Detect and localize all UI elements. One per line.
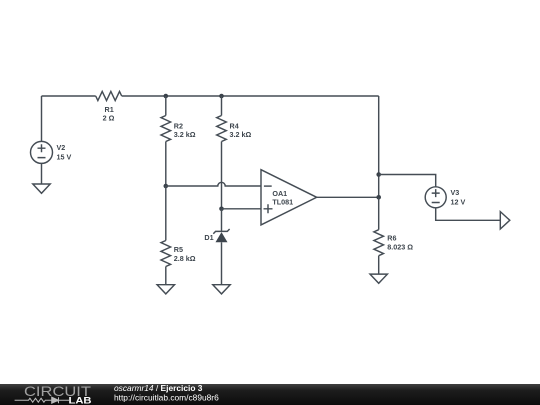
wire plus node to D1 bbox=[221, 209, 223, 232]
wire R4 top stub bbox=[221, 96, 223, 116]
svg-text:R6: R6 bbox=[387, 233, 396, 242]
svg-text:15 V: 15 V bbox=[57, 153, 72, 162]
node junction plus input bbox=[219, 207, 224, 212]
wire minus input with hop bbox=[166, 182, 261, 186]
wire V2 to ground bbox=[41, 163, 43, 184]
resistor R1 bbox=[96, 91, 122, 122]
node junction V3 branch bbox=[376, 172, 381, 177]
wire top rail left segment bbox=[42, 95, 96, 97]
ground under R6 bbox=[370, 274, 387, 283]
svg-text:V3: V3 bbox=[451, 188, 460, 197]
svg-text:D1: D1 bbox=[204, 233, 213, 242]
logo schematic doodle bbox=[15, 397, 69, 403]
svg-text:oscarmr14 / Ejercicio 3: oscarmr14 / Ejercicio 3 bbox=[114, 383, 203, 393]
wire R6 bottom to ground bbox=[378, 256, 380, 274]
wire to V3 top bbox=[379, 175, 436, 187]
wire R6 top stub bbox=[378, 197, 380, 229]
zener diode D1 bbox=[204, 229, 229, 242]
wire plus input bbox=[222, 208, 262, 210]
node junction minus input bbox=[164, 184, 169, 189]
svg-text:LAB: LAB bbox=[69, 395, 92, 405]
svg-text:http://circuitlab.com/c89u8r6: http://circuitlab.com/c89u8r6 bbox=[114, 393, 219, 403]
ground under V2 bbox=[33, 184, 50, 193]
svg-text:R1: R1 bbox=[105, 105, 114, 114]
svg-text:R5: R5 bbox=[174, 245, 183, 254]
svg-text:V2: V2 bbox=[57, 143, 66, 152]
svg-text:3.2 kΩ: 3.2 kΩ bbox=[174, 130, 196, 139]
ground under R5 bbox=[157, 285, 174, 294]
resistor R2 bbox=[161, 116, 196, 142]
resistor R5 bbox=[161, 241, 196, 267]
ground under D1 bbox=[213, 285, 230, 294]
svg-text:8.023 Ω: 8.023 Ω bbox=[387, 242, 413, 251]
wire D1 to ground bbox=[221, 242, 223, 284]
wire R4 bottom to plus node bbox=[221, 142, 223, 209]
node junction R4 top bbox=[219, 94, 224, 99]
wire R5 bottom to ground bbox=[165, 267, 167, 285]
wire top rail right segment bbox=[122, 95, 379, 97]
wire op-amp output bbox=[317, 196, 379, 198]
svg-text:2.8 kΩ: 2.8 kΩ bbox=[174, 254, 196, 263]
node junction output bbox=[376, 195, 381, 200]
resistor R4 bbox=[217, 116, 252, 142]
node junction R2 top bbox=[164, 94, 169, 99]
svg-text:3.2 kΩ: 3.2 kΩ bbox=[230, 130, 252, 139]
svg-text:TL081: TL081 bbox=[272, 197, 293, 206]
svg-text:12 V: 12 V bbox=[451, 198, 466, 207]
voltage source V2 bbox=[31, 141, 72, 163]
op-amp OA1 bbox=[261, 170, 317, 225]
wire R2 bottom to minus node bbox=[165, 142, 167, 187]
banner bar bbox=[0, 384, 540, 405]
svg-text:2 Ω: 2 Ω bbox=[103, 114, 115, 123]
wire left vertical to V2 bbox=[41, 96, 43, 141]
resistor R6 bbox=[374, 230, 413, 256]
wire V3 bottom to flag bbox=[436, 208, 501, 221]
wire R2 top stub bbox=[165, 96, 167, 116]
wire R5 top stub bbox=[165, 186, 167, 241]
net flag output bbox=[500, 212, 510, 229]
voltage source V3 bbox=[425, 187, 465, 208]
wire right vertical from rail to output node bbox=[378, 96, 380, 197]
